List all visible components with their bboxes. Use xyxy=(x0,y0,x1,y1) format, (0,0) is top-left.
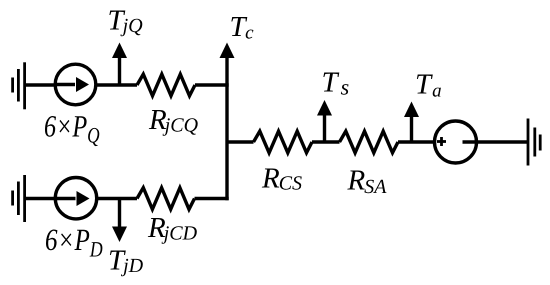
label 6xPD xyxy=(46,230,102,257)
wire voltage source to GND3 xyxy=(463,140,529,143)
current source PQ (circle with right arrow) xyxy=(55,64,96,105)
label Ts xyxy=(323,73,348,95)
temperature arrow TjD (down) xyxy=(112,199,127,243)
temperature arrow Ts xyxy=(317,100,332,142)
current source PD (circle with right arrow) xyxy=(55,178,96,219)
temperature arrow TjQ xyxy=(112,43,127,86)
wire RSA to voltage source xyxy=(398,140,434,143)
label Tc xyxy=(231,17,253,39)
label RjCQ xyxy=(149,110,198,136)
voltage source Va (circle with plus) xyxy=(435,121,477,163)
wire resistor RjCQ to node Tc xyxy=(195,83,229,86)
ground GND3 (right) xyxy=(528,119,540,166)
wire resistor RjCD to corner below node Tc xyxy=(195,197,229,200)
wire GND1 to source PQ xyxy=(25,83,56,86)
wire source PD to resistor RjCD xyxy=(98,197,138,200)
label RSA xyxy=(347,171,386,194)
wire GND2 to source PD xyxy=(25,197,56,200)
wire RCS to RSA xyxy=(312,140,340,143)
label Ta xyxy=(417,75,441,97)
label RCS xyxy=(262,169,302,190)
resistor RCS xyxy=(254,131,313,153)
resistor RSA xyxy=(340,131,399,153)
resistor RjCQ xyxy=(137,74,195,96)
label 6xPQ xyxy=(45,116,99,146)
ground GND1 (top left) xyxy=(13,62,25,109)
label RjCD xyxy=(148,218,197,244)
wire node Tc to RCS xyxy=(227,140,254,143)
arrow Tc xyxy=(220,43,235,59)
ground GND2 (bottom left) xyxy=(13,175,25,222)
node Tc central vertical wire xyxy=(225,56,228,200)
resistor RjCD xyxy=(137,188,195,210)
wire source PQ to resistor RjCQ xyxy=(97,83,137,86)
label TjD xyxy=(110,251,143,277)
temperature arrow Ta xyxy=(404,102,419,143)
label TjQ xyxy=(109,11,142,37)
